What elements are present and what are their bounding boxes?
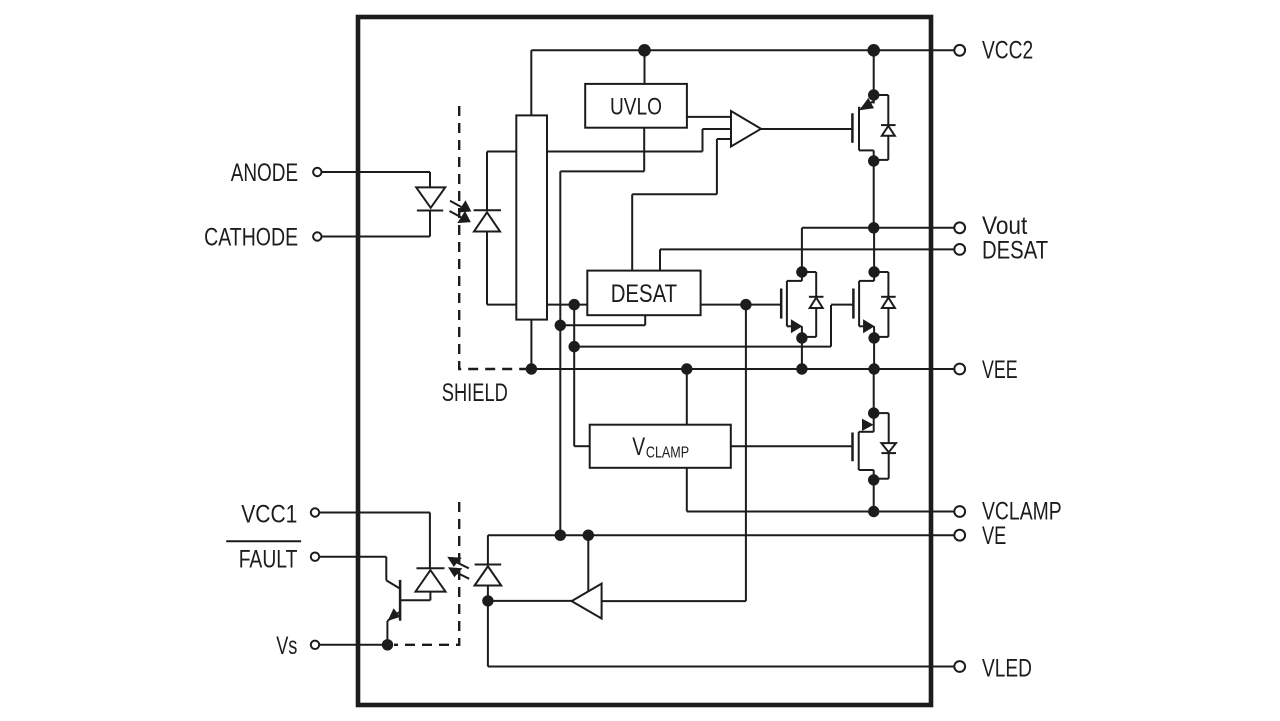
junction dot M2 bottom (796, 332, 807, 343)
junction dot shield/VEE (526, 363, 537, 374)
terminal VE (954, 530, 965, 541)
wire DESAT output to M2 gate (701, 304, 782, 306)
wire VCLAMP box top stub (686, 369, 688, 425)
wire UVLO bottom stair to node B (560, 128, 644, 536)
wire DESAT logic stair to buffer input 3 (632, 139, 731, 271)
junction dot M4 at VCLAMP rail (868, 506, 879, 517)
optical arrows channel 2 (feedback LED to photodiode) (447, 557, 469, 579)
label SHIELD (442, 379, 508, 407)
junction dot Q1 emitter / Vs / shield (382, 639, 393, 650)
wire CATHODE lead (322, 211, 431, 237)
terminal Vs (311, 641, 319, 649)
shield dashed line (bottom) (394, 502, 459, 645)
junction dot M1 drain at VCC2 rail (867, 44, 880, 57)
terminal Vout (954, 222, 965, 233)
junction dot M4 top (868, 407, 879, 418)
LED D2 (feedback LED, cathode top) (475, 565, 502, 601)
terminal VEE (954, 364, 965, 375)
label VEE (982, 356, 1018, 384)
wire VE rail (488, 535, 954, 564)
terminal VCLAMP (954, 506, 965, 517)
label Vs (276, 632, 297, 660)
svg-text:VE: VE (982, 522, 1006, 550)
junction dot node B / DESAT bottom (555, 320, 566, 331)
junction dot M1 top (868, 89, 879, 100)
feedback buffer U3 (points left) (572, 584, 602, 619)
junction dot M4 bottom (868, 474, 879, 485)
label Vout (982, 212, 1027, 240)
wire VEE rail (531, 368, 954, 370)
svg-text:VLED: VLED (982, 655, 1032, 683)
junction dot M2 gate / feedback buffer (740, 299, 751, 310)
svg-text:DESAT: DESAT (611, 280, 677, 308)
label VCC1 (241, 500, 297, 528)
svg-text:Vs: Vs (276, 632, 297, 660)
block UVLO U2 (585, 84, 687, 128)
wire gate line to M3 (low-side) (574, 305, 853, 347)
junction dot photodiode anode line (569, 299, 580, 310)
wire buffer U3 output to LED D2 (488, 600, 572, 602)
terminal VCC1 (311, 508, 319, 516)
wire VCLAMP box bottom to VCLAMP pin (687, 468, 955, 512)
junction dot gate line (569, 341, 580, 352)
wire feedback to buffer U3 input (602, 305, 746, 601)
block VCLAMP U5 (590, 425, 731, 468)
transistor M4 (VCLAMP MOSFET) (853, 369, 897, 512)
label CATHODE (204, 224, 298, 252)
label VE (982, 522, 1006, 550)
terminal FAULT (311, 553, 319, 561)
junction dot M3 top (868, 266, 879, 277)
label ANODE (231, 159, 298, 187)
terminal VCC2 (954, 45, 965, 56)
svg-text:DESAT: DESAT (982, 236, 1048, 264)
wire DESAT box bottom link (560, 315, 645, 325)
svg-text:UVLO: UVLO (610, 94, 662, 121)
wire FAULT lead (collector) (319, 557, 386, 581)
terminal VLED (954, 661, 965, 672)
wire VCC2 top rail (531, 50, 954, 115)
terminal CATHODE (313, 232, 321, 240)
wire stair to driver buffer input 2 (703, 129, 732, 152)
LED D1 (input LED, anode top) (416, 187, 445, 210)
svg-text:VCC2: VCC2 (982, 37, 1033, 65)
junction dot LED D2 / VLED (482, 595, 493, 606)
photodiode PD1 (receiver, cathode top) (474, 210, 501, 304)
svg-text:VCC1: VCC1 (241, 500, 297, 528)
terminal ANODE (313, 168, 321, 176)
label VCC2 (982, 37, 1033, 65)
svg-text:VEE: VEE (982, 356, 1018, 384)
wire photodiode cathode to input block (node at y=151.5) (487, 152, 703, 211)
wire VLED rail (488, 601, 954, 667)
junction dot M1 bottom (868, 155, 879, 166)
label DESAT pin (982, 236, 1048, 264)
wire ANODE lead (322, 172, 431, 187)
wire VE to buffer U3 top (587, 535, 589, 592)
junction dot VE/buffer (583, 530, 594, 541)
transistor M2 (pull-down MOSFET, DESAT driven) (781, 272, 823, 369)
svg-text:FAULT: FAULT (239, 546, 298, 574)
wire DESAT sense rail to DESAT pin (660, 249, 954, 270)
package outline border (358, 17, 931, 705)
optical arrows channel 1 (LED to photodiode) (450, 200, 472, 223)
wire UVLO supply stub (644, 50, 646, 84)
label VLED (982, 655, 1032, 683)
svg-text:SHIELD: SHIELD (442, 379, 508, 407)
wire buffer U1 output to M1 gate (761, 128, 852, 130)
wire photodiode anode to DESAT block (node at y=304.6) (487, 304, 587, 306)
transistor Q1 (FAULT open collector) (386, 580, 400, 645)
wire VCC1 lead to photodiode PD2 (319, 513, 430, 569)
svg-text:CLAMP: CLAMP (646, 445, 689, 462)
junction dot Vout rail (868, 222, 879, 233)
input detector block (516, 115, 547, 369)
wire Vout rail (802, 228, 954, 272)
wire Vs lead (319, 644, 387, 646)
wire M4 gate lead (731, 445, 853, 447)
junction dot M2 at VEE (796, 363, 807, 374)
transistor M1 (high-side output MOSFET) (852, 50, 895, 228)
terminal DESAT (954, 244, 965, 255)
driver buffer U1 (731, 111, 761, 147)
wire UVLO output to buffer input 1 (687, 116, 731, 118)
junction dot M3 bottom (868, 332, 879, 343)
junction dot M3 at VEE (868, 363, 879, 374)
junction dot node B at VE rail (555, 530, 566, 541)
junction dot VCC2/UVLO (638, 44, 651, 57)
photodiode PD2 (fault receiver, cathode top) (401, 568, 446, 600)
junction dot M2 top (796, 266, 807, 277)
svg-text:VCLAMP: VCLAMP (982, 497, 1062, 525)
label VCLAMP pin (982, 497, 1062, 525)
block DESAT U4 (587, 271, 700, 316)
transistor M3 (low-side output MOSFET) (853, 228, 895, 369)
svg-text:V: V (632, 433, 645, 461)
svg-text:CATHODE: CATHODE (204, 224, 298, 252)
shield dashed line (top) (459, 106, 528, 369)
svg-text:ANODE: ANODE (231, 159, 298, 187)
label FAULT (with overline) (226, 541, 301, 573)
junction dot VEE/VCLAMP box (681, 363, 692, 374)
wire VCLAMP block left lead (574, 305, 590, 447)
